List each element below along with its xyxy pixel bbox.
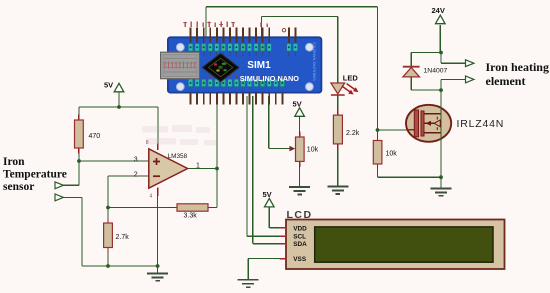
- svg-text:Iron: Iron: [3, 156, 25, 168]
- svg-text:SIMULINO NANO 3.0: SIMULINO NANO 3.0: [312, 42, 317, 81]
- svg-text:3: 3: [134, 157, 138, 164]
- svg-text:LED: LED: [343, 74, 359, 83]
- svg-text:SDA: SDA: [293, 241, 307, 248]
- svg-text:SIMULINO NANO: SIMULINO NANO: [240, 74, 300, 83]
- svg-text:SIM1: SIM1: [247, 60, 271, 71]
- svg-text:5V: 5V: [293, 100, 302, 109]
- svg-text:5V: 5V: [104, 81, 113, 90]
- svg-text:10k: 10k: [307, 147, 319, 154]
- svg-text:3.3k: 3.3k: [184, 213, 198, 220]
- svg-text:element: element: [486, 74, 526, 88]
- svg-text:Temperature: Temperature: [3, 168, 67, 180]
- svg-text:24V: 24V: [432, 6, 445, 15]
- svg-text:5V: 5V: [263, 190, 272, 199]
- svg-text:2.2k: 2.2k: [346, 130, 360, 137]
- svg-text:1: 1: [196, 163, 200, 170]
- svg-text:VDD: VDD: [293, 225, 307, 232]
- svg-text:IRLZ44N: IRLZ44N: [457, 118, 505, 130]
- svg-text:2.7k: 2.7k: [116, 234, 130, 241]
- svg-text:10k: 10k: [386, 151, 398, 158]
- svg-text:470: 470: [89, 133, 101, 140]
- svg-text:LCD: LCD: [287, 209, 313, 221]
- svg-text:sensor: sensor: [3, 181, 34, 193]
- svg-text:SCL: SCL: [293, 233, 306, 240]
- svg-text:1N4007: 1N4007: [424, 68, 448, 75]
- svg-text:LM358: LM358: [168, 153, 188, 160]
- svg-text:Iron heating: Iron heating: [486, 60, 549, 74]
- svg-text:2: 2: [134, 172, 138, 179]
- svg-text:4: 4: [150, 194, 153, 200]
- svg-text:VSS: VSS: [293, 256, 307, 263]
